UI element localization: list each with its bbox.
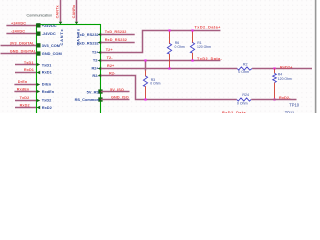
pin T2- bbox=[93, 58, 101, 63]
svg-text:R2-: R2- bbox=[109, 72, 116, 76]
net label CANTx vertical bbox=[56, 4, 60, 18]
svg-text:TxD_RS232: TxD_RS232 bbox=[77, 32, 99, 37]
wire DrEn bbox=[14, 84, 36, 86]
svg-text:R2+: R2+ bbox=[107, 64, 115, 68]
svg-text:CANTx: CANTx bbox=[59, 28, 64, 45]
pin TxD2 bbox=[36, 98, 52, 103]
pin CANRx bbox=[75, 22, 81, 46]
svg-text:TP10: TP10 bbox=[289, 102, 300, 107]
resistor R1 bbox=[190, 31, 211, 61]
wire T2+ to Data+ bbox=[101, 31, 220, 53]
net label RxD2 bbox=[20, 103, 30, 107]
wire T2- Data- bbox=[101, 60, 220, 62]
wire 3V3_DIGITAL bbox=[1, 45, 37, 47]
net label R2- bbox=[109, 72, 116, 76]
svg-text:TxD1: TxD1 bbox=[42, 62, 52, 67]
junction R4 bottom bbox=[273, 98, 275, 100]
net label 5V_ISO bbox=[110, 88, 124, 92]
svg-text:RS_Common: RS_Common bbox=[75, 97, 100, 102]
net label DrEn bbox=[18, 80, 28, 84]
wire RxdEn bbox=[14, 91, 36, 93]
wire TxD2 bbox=[15, 100, 36, 102]
svg-text:0 Ohm: 0 Ohm bbox=[238, 70, 249, 74]
svg-text:RxD_RS232: RxD_RS232 bbox=[77, 40, 100, 45]
svg-text:CANRx: CANRx bbox=[72, 4, 76, 18]
net label RxD1 bbox=[24, 68, 34, 72]
pin GND_COM bbox=[36, 51, 61, 56]
svg-text:GND_DIGITAL: GND_DIGITAL bbox=[10, 50, 37, 54]
net label RxD2- bbox=[279, 96, 291, 100]
pin -24VDC bbox=[36, 31, 56, 36]
pin RxD_RS232 bbox=[77, 40, 101, 45]
svg-text:TxD2_Data-: TxD2_Data- bbox=[197, 57, 223, 61]
net label TxD_RS232 bbox=[105, 30, 127, 34]
net label +24VDC bbox=[11, 21, 26, 25]
svg-text:0 Ohm: 0 Ohm bbox=[150, 82, 160, 86]
svg-text:-24VDC: -24VDC bbox=[11, 30, 25, 34]
svg-text:RxD2+: RxD2+ bbox=[280, 65, 293, 69]
svg-text:DrEn: DrEn bbox=[18, 80, 28, 84]
pin CANTx bbox=[59, 22, 64, 46]
resistor R3 bbox=[143, 71, 160, 100]
svg-text:RxD2: RxD2 bbox=[42, 105, 53, 110]
pin +24VDC bbox=[36, 23, 57, 28]
resistor R4 bbox=[273, 69, 292, 100]
wire TxD_RS232 bbox=[101, 34, 135, 36]
net label T2+ bbox=[106, 48, 114, 52]
net label GND_DIGITAL bbox=[10, 50, 37, 54]
wire R2 to RxD2+ bbox=[252, 68, 312, 70]
wire CANTx vertical bbox=[60, 0, 62, 22]
net label RxD_RS232 bbox=[105, 38, 127, 42]
pin R2+ bbox=[91, 66, 101, 71]
pin RxD1 bbox=[36, 70, 52, 75]
svg-text:RxD1: RxD1 bbox=[24, 68, 34, 72]
net label RxdEn bbox=[17, 87, 30, 91]
wire GND_ISO stub bbox=[101, 99, 130, 101]
svg-text:TxD_RS232: TxD_RS232 bbox=[105, 30, 127, 34]
net label CANRx vertical bbox=[72, 4, 76, 18]
svg-text:RxdEn: RxdEn bbox=[42, 89, 55, 94]
junction R4 top bbox=[273, 67, 275, 69]
svg-text:R2: R2 bbox=[243, 63, 248, 67]
resistor R24 bbox=[237, 93, 251, 105]
svg-text:5V_ISO: 5V_ISO bbox=[110, 88, 124, 92]
svg-text:T2+: T2+ bbox=[92, 50, 100, 55]
svg-text:0 Ohm: 0 Ohm bbox=[237, 101, 248, 105]
net label TxD2 bbox=[20, 96, 30, 100]
panel border bbox=[316, 0, 320, 113]
pin 5V_RS bbox=[87, 89, 103, 94]
svg-text:GND_COM: GND_COM bbox=[42, 51, 62, 56]
resistor R6 bbox=[167, 31, 184, 69]
pin DrEn bbox=[36, 82, 51, 87]
net label fragment bottom left bbox=[222, 111, 248, 115]
net label TxD1 bbox=[24, 61, 34, 65]
junction R6 top bbox=[168, 29, 170, 31]
svg-text:R2-: R2- bbox=[92, 73, 99, 78]
svg-text:RxD_RS232: RxD_RS232 bbox=[105, 38, 127, 42]
wire RxD1 bbox=[15, 72, 36, 74]
wire R2+ left of R2 bbox=[101, 68, 237, 70]
pin T2+ bbox=[92, 50, 101, 55]
wire TxD1 bbox=[15, 64, 36, 66]
svg-text:CANTx: CANTx bbox=[56, 4, 60, 18]
pin RxD2 bbox=[36, 105, 52, 110]
svg-text:+24VDC: +24VDC bbox=[42, 23, 57, 28]
wire T2- to R3 vertical bbox=[145, 61, 147, 71]
wire CANRx vertical bbox=[76, 0, 78, 22]
wire 5V_ISO stub bbox=[101, 91, 130, 93]
junction T2- R3 bbox=[144, 59, 146, 61]
svg-text:TxD2_Data+: TxD2_Data+ bbox=[195, 25, 222, 29]
svg-text:RxdEn: RxdEn bbox=[17, 87, 30, 91]
net label T2- bbox=[107, 56, 114, 60]
svg-text:RxD2-: RxD2- bbox=[279, 96, 291, 100]
svg-text:RxD1: RxD1 bbox=[42, 70, 53, 75]
wire -24VDC bbox=[6, 33, 36, 35]
svg-text:TP11: TP11 bbox=[285, 111, 295, 113]
pin TxD_RS232 bbox=[77, 32, 101, 37]
svg-text:5V_RS: 5V_RS bbox=[87, 89, 100, 94]
resistor R2 bbox=[237, 63, 252, 75]
svg-text:Communication: Communication bbox=[27, 14, 53, 18]
svg-text:RxD2_Data-: RxD2_Data- bbox=[222, 111, 248, 113]
test point fragment bottom bbox=[285, 111, 295, 116]
svg-text:TxD2: TxD2 bbox=[20, 96, 30, 100]
junction R6 bottom bbox=[168, 67, 170, 69]
junction R3 bottom bbox=[144, 98, 146, 100]
svg-text:120 Ohm: 120 Ohm bbox=[278, 77, 292, 81]
junction R1 bottom bbox=[191, 59, 193, 61]
svg-text:T2-: T2- bbox=[107, 56, 114, 60]
net label GND_ISO bbox=[111, 96, 129, 100]
pin TxD1 bbox=[36, 62, 52, 67]
svg-text:R2+: R2+ bbox=[91, 66, 99, 71]
pin 3V3_COM bbox=[36, 43, 60, 48]
sheet symbol U_Communication bbox=[27, 14, 101, 117]
pin RS_Common bbox=[75, 97, 103, 102]
svg-text:R4: R4 bbox=[278, 72, 282, 76]
svg-text:0 Ohm: 0 Ohm bbox=[175, 45, 185, 49]
svg-text:T2+: T2+ bbox=[106, 48, 114, 52]
svg-text:+24VDC: +24VDC bbox=[11, 21, 26, 25]
svg-text:TxD2: TxD2 bbox=[42, 98, 52, 103]
pin R2- bbox=[92, 73, 101, 78]
svg-text:-24VDC: -24VDC bbox=[42, 31, 56, 36]
svg-text:RxD2: RxD2 bbox=[20, 103, 30, 107]
wire R24 to RxD2- bbox=[251, 99, 296, 101]
wire RxD_RS232 bbox=[101, 42, 135, 44]
svg-text:GND_ISO: GND_ISO bbox=[111, 96, 129, 100]
wire R2- down to bottom bus bbox=[101, 76, 237, 100]
svg-text:TxD1: TxD1 bbox=[24, 61, 34, 65]
net label TxD2_Data- bbox=[197, 57, 223, 61]
pin RxdEn bbox=[36, 89, 54, 94]
svg-text:3V3_DIGITAL: 3V3_DIGITAL bbox=[10, 41, 35, 45]
junction R1 top bbox=[191, 29, 193, 31]
svg-text:3V3_COM: 3V3_COM bbox=[42, 43, 60, 48]
net label 3V3_DIGITAL bbox=[10, 41, 35, 45]
net label R2+ bbox=[107, 64, 115, 68]
wire RxD2 bbox=[15, 107, 36, 109]
wire GND_DIGITAL bbox=[1, 53, 37, 55]
test point TP10 bbox=[289, 102, 300, 107]
net label -24VDC bbox=[11, 30, 25, 34]
svg-text:T2-: T2- bbox=[93, 58, 100, 63]
net label RxD2+ bbox=[280, 65, 293, 69]
svg-text:DrEn: DrEn bbox=[42, 82, 52, 87]
svg-text:R24: R24 bbox=[242, 93, 249, 97]
wire +24VDC bbox=[6, 25, 36, 27]
svg-text:120 Ohm: 120 Ohm bbox=[197, 45, 211, 49]
net label TxD2_Data+ bbox=[195, 25, 222, 29]
